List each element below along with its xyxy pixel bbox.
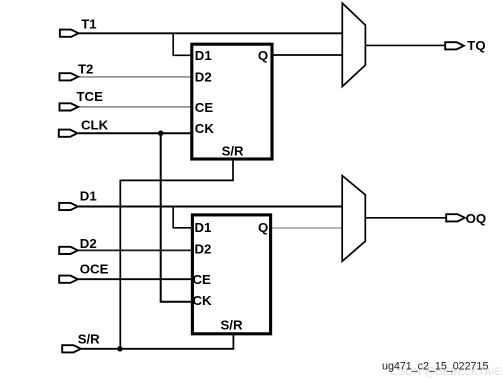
wire T2 bbox=[79, 76, 192, 78]
node S/R junction bbox=[117, 346, 122, 351]
pad T2 bbox=[60, 73, 79, 80]
pad D2 bbox=[59, 247, 78, 254]
svg-text:Q: Q bbox=[258, 48, 268, 63]
node CLK junction bbox=[158, 131, 163, 136]
wire CLK vertical to bottom CK bbox=[161, 133, 192, 302]
svg-text:CE: CE bbox=[195, 100, 214, 115]
svg-text:CK: CK bbox=[195, 121, 215, 136]
svg-text:S/R: S/R bbox=[222, 144, 244, 159]
svg-text:S/R: S/R bbox=[221, 318, 243, 333]
wire S/R top box jog bbox=[120, 160, 233, 349]
mux M1 (top) bbox=[342, 3, 365, 86]
svg-text:CK: CK bbox=[193, 293, 213, 308]
svg-text:ug471_c2_15_022715: ug471_c2_15_022715 bbox=[382, 361, 488, 373]
pad OQ bbox=[446, 214, 465, 221]
flip-flop U2 (output register) bbox=[192, 215, 270, 334]
wire OQ mux output bbox=[365, 217, 446, 219]
svg-text:TCE: TCE bbox=[77, 89, 104, 104]
mux M2 (bottom) bbox=[342, 176, 365, 262]
wire D1 bottom horizontal bbox=[79, 206, 343, 208]
wire Q bottom to mux bbox=[272, 227, 343, 229]
svg-text:Q: Q bbox=[258, 220, 268, 235]
svg-text:D2: D2 bbox=[195, 242, 212, 257]
svg-text:OQ: OQ bbox=[466, 211, 487, 226]
svg-text:D1: D1 bbox=[195, 48, 212, 63]
wire T1 branch to D1 pin bbox=[173, 33, 191, 55]
svg-text:S/R: S/R bbox=[78, 332, 100, 347]
pad TQ bbox=[445, 42, 464, 49]
wire TQ mux output bbox=[365, 44, 445, 46]
svg-text:D1: D1 bbox=[80, 188, 97, 203]
wire D1 branch to bottom D1 pin bbox=[173, 207, 192, 228]
wire CLK horizontal bbox=[79, 132, 192, 134]
wire OCE bbox=[79, 278, 193, 280]
svg-text:D1: D1 bbox=[195, 220, 212, 235]
pad T1 bbox=[60, 30, 79, 37]
wire T1 horizontal bbox=[79, 32, 343, 34]
svg-text:CE: CE bbox=[193, 272, 212, 287]
svg-text:D2: D2 bbox=[80, 236, 97, 251]
svg-text:T1: T1 bbox=[81, 17, 96, 32]
svg-text:CLK: CLK bbox=[81, 118, 109, 133]
pad D1 bbox=[59, 203, 78, 210]
flip-flop U1 (3-state register) bbox=[192, 44, 272, 159]
wire TCE bbox=[78, 106, 191, 108]
wire Q top to mux bbox=[273, 54, 343, 56]
pad S/R bbox=[62, 345, 81, 352]
wire D2 bottom bbox=[79, 249, 193, 251]
svg-text:T2: T2 bbox=[78, 62, 93, 77]
pad CLK bbox=[59, 130, 78, 137]
svg-text:OCE: OCE bbox=[80, 262, 109, 277]
pad TCE bbox=[60, 103, 79, 110]
pad OCE bbox=[59, 276, 78, 283]
svg-text:D2: D2 bbox=[195, 69, 212, 84]
svg-text:TQ: TQ bbox=[467, 38, 485, 53]
wire S/R bottom horizontal bbox=[81, 335, 233, 349]
